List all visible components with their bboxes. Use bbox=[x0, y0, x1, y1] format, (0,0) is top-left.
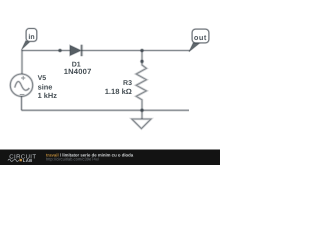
wire: resistor top stub bbox=[141, 51, 144, 62]
wire: top horizontal right segment (diode cathode to out node) bbox=[81, 49, 190, 52]
diode D1 value label 1N4007 bbox=[64, 67, 92, 76]
resistor R3 reference label bbox=[123, 80, 132, 87]
svg-text:1N4007: 1N4007 bbox=[64, 67, 92, 76]
wire: vertical from in corner down to V5 top terminal bbox=[21, 50, 24, 75]
wire: top horizontal left segment (in node to diode anode) bbox=[22, 49, 71, 52]
footer circuit title line bbox=[46, 152, 134, 157]
voltage source V5 reference label bbox=[38, 75, 47, 82]
junction dot at resistor top terminal bbox=[140, 59, 144, 63]
svg-text:http://circuitlab.com/c39e74x/: http://circuitlab.com/c39e74x/ bbox=[46, 156, 100, 161]
voltage source V5 type label sine bbox=[38, 83, 53, 92]
ground symbol bbox=[132, 110, 151, 128]
junction dot at ground node on bottom rail bbox=[140, 108, 144, 112]
node label "in" bbox=[21, 29, 36, 50]
wire: bottom horizontal rail bbox=[22, 109, 190, 112]
diode D1 reference label bbox=[72, 62, 81, 69]
svg-text:V5: V5 bbox=[38, 75, 47, 82]
voltage source V5 value label 1 kHz bbox=[38, 91, 58, 100]
junction dot at resistor top node on wire bbox=[140, 48, 144, 52]
voltage source V5 symbol bbox=[10, 74, 32, 96]
junction dot on top-left wire bbox=[58, 48, 62, 52]
wire: V5 bottom terminal down to bottom rail bbox=[20, 96, 23, 110]
svg-text:1.18 kΩ: 1.18 kΩ bbox=[105, 87, 132, 96]
resistor R3 value label 1.18 kOhm bbox=[105, 87, 132, 96]
node label "out" bbox=[189, 29, 209, 52]
svg-text:out: out bbox=[194, 33, 207, 42]
diode D1 symbol bbox=[70, 45, 82, 57]
footer URL line bbox=[46, 156, 100, 161]
footer watermark bar bbox=[0, 150, 220, 166]
svg-text:in: in bbox=[28, 33, 34, 41]
svg-text:LAB: LAB bbox=[23, 158, 33, 163]
svg-text:1 kHz: 1 kHz bbox=[38, 91, 58, 100]
footer CircuitLab logo bbox=[8, 154, 37, 163]
resistor R3 symbol bbox=[136, 61, 146, 111]
